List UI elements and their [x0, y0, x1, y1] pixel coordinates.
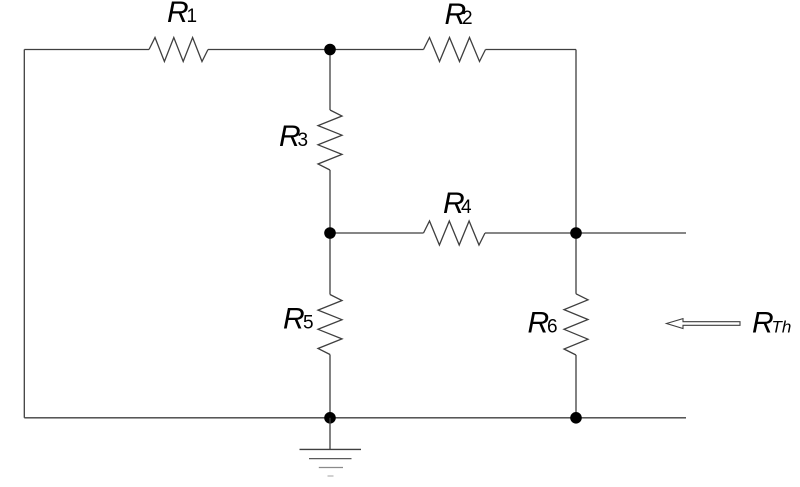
wire right rail upper [575, 50, 577, 234]
svg-text:5: 5 [303, 312, 314, 333]
resistor R4 [424, 221, 486, 245]
label R3 [279, 120, 308, 153]
resistor R6 [564, 294, 588, 355]
resistor R3 [318, 110, 342, 170]
svg-text:R: R [528, 307, 550, 340]
svg-text:R: R [283, 302, 305, 335]
wire middle rail left segment [330, 232, 424, 234]
svg-text:Th: Th [772, 318, 792, 337]
wire top rail middle segment [208, 49, 424, 51]
label R2 [445, 0, 473, 31]
resistor R5 [318, 295, 342, 355]
label R5 [283, 302, 314, 335]
wire right rail R6 bottom lead [575, 355, 577, 418]
label R1 [167, 0, 197, 29]
wire bottom rail [24, 417, 686, 419]
node C: junction R4 / right rail [570, 227, 582, 239]
label R6 [528, 307, 558, 340]
arrow RTh pointer [667, 319, 741, 329]
label R4 [443, 187, 472, 220]
wire left rail [23, 50, 25, 418]
wire middle rail right segment [485, 232, 686, 234]
svg-text:1: 1 [187, 6, 198, 27]
label RTh [752, 307, 791, 340]
wire mid vertical R5 bottom lead [329, 355, 331, 418]
svg-text:R: R [752, 307, 774, 340]
node A: junction top rail / R3 [324, 44, 336, 56]
wire top rail right segment [486, 49, 577, 51]
wire right rail R6 top lead [575, 233, 577, 294]
ground [300, 418, 362, 476]
svg-text:3: 3 [298, 130, 309, 151]
wire mid vertical R3-R4 link [329, 170, 331, 233]
resistor R2 [424, 38, 486, 62]
svg-text:6: 6 [547, 317, 558, 338]
svg-text:R: R [167, 0, 189, 29]
node D: junction bottom rail / R5 / ground [324, 412, 336, 424]
node B: junction R3 / R4 / R5 [324, 227, 336, 239]
svg-text:4: 4 [461, 197, 472, 218]
node E: junction bottom rail / R6 [570, 412, 582, 424]
wire mid vertical R3 top lead [329, 50, 331, 111]
wire top rail left segment [24, 49, 149, 51]
resistor R1 [149, 38, 208, 62]
wire mid vertical R5 top lead [329, 233, 331, 295]
svg-text:2: 2 [462, 8, 473, 29]
